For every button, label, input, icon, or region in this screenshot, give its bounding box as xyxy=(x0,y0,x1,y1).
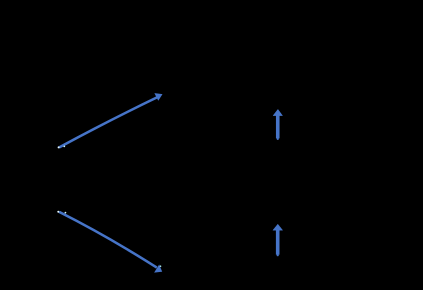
arrow A4 head xyxy=(273,224,283,230)
arrow A3 head xyxy=(273,109,282,115)
arrow A4 shaft end nub xyxy=(277,254,279,256)
speck on A2 shaft xyxy=(65,212,67,214)
speck on A1 shaft xyxy=(63,146,65,148)
speck at A1 tail xyxy=(58,146,60,148)
arrow A1 head xyxy=(155,94,162,101)
arrow A1 (diagonal up-right) shaft xyxy=(59,97,157,147)
speck near A2 head xyxy=(160,265,162,267)
arrow A4 (vertical up, lower) shaft xyxy=(276,230,280,255)
arrow A3 (vertical up, upper) shaft xyxy=(276,115,280,138)
speck at A2 tail xyxy=(57,211,59,213)
arrow A3 shaft end nub xyxy=(277,138,279,140)
arrow A2 head xyxy=(155,265,162,272)
arrow A2 (diagonal down-right) shaft xyxy=(59,212,157,268)
